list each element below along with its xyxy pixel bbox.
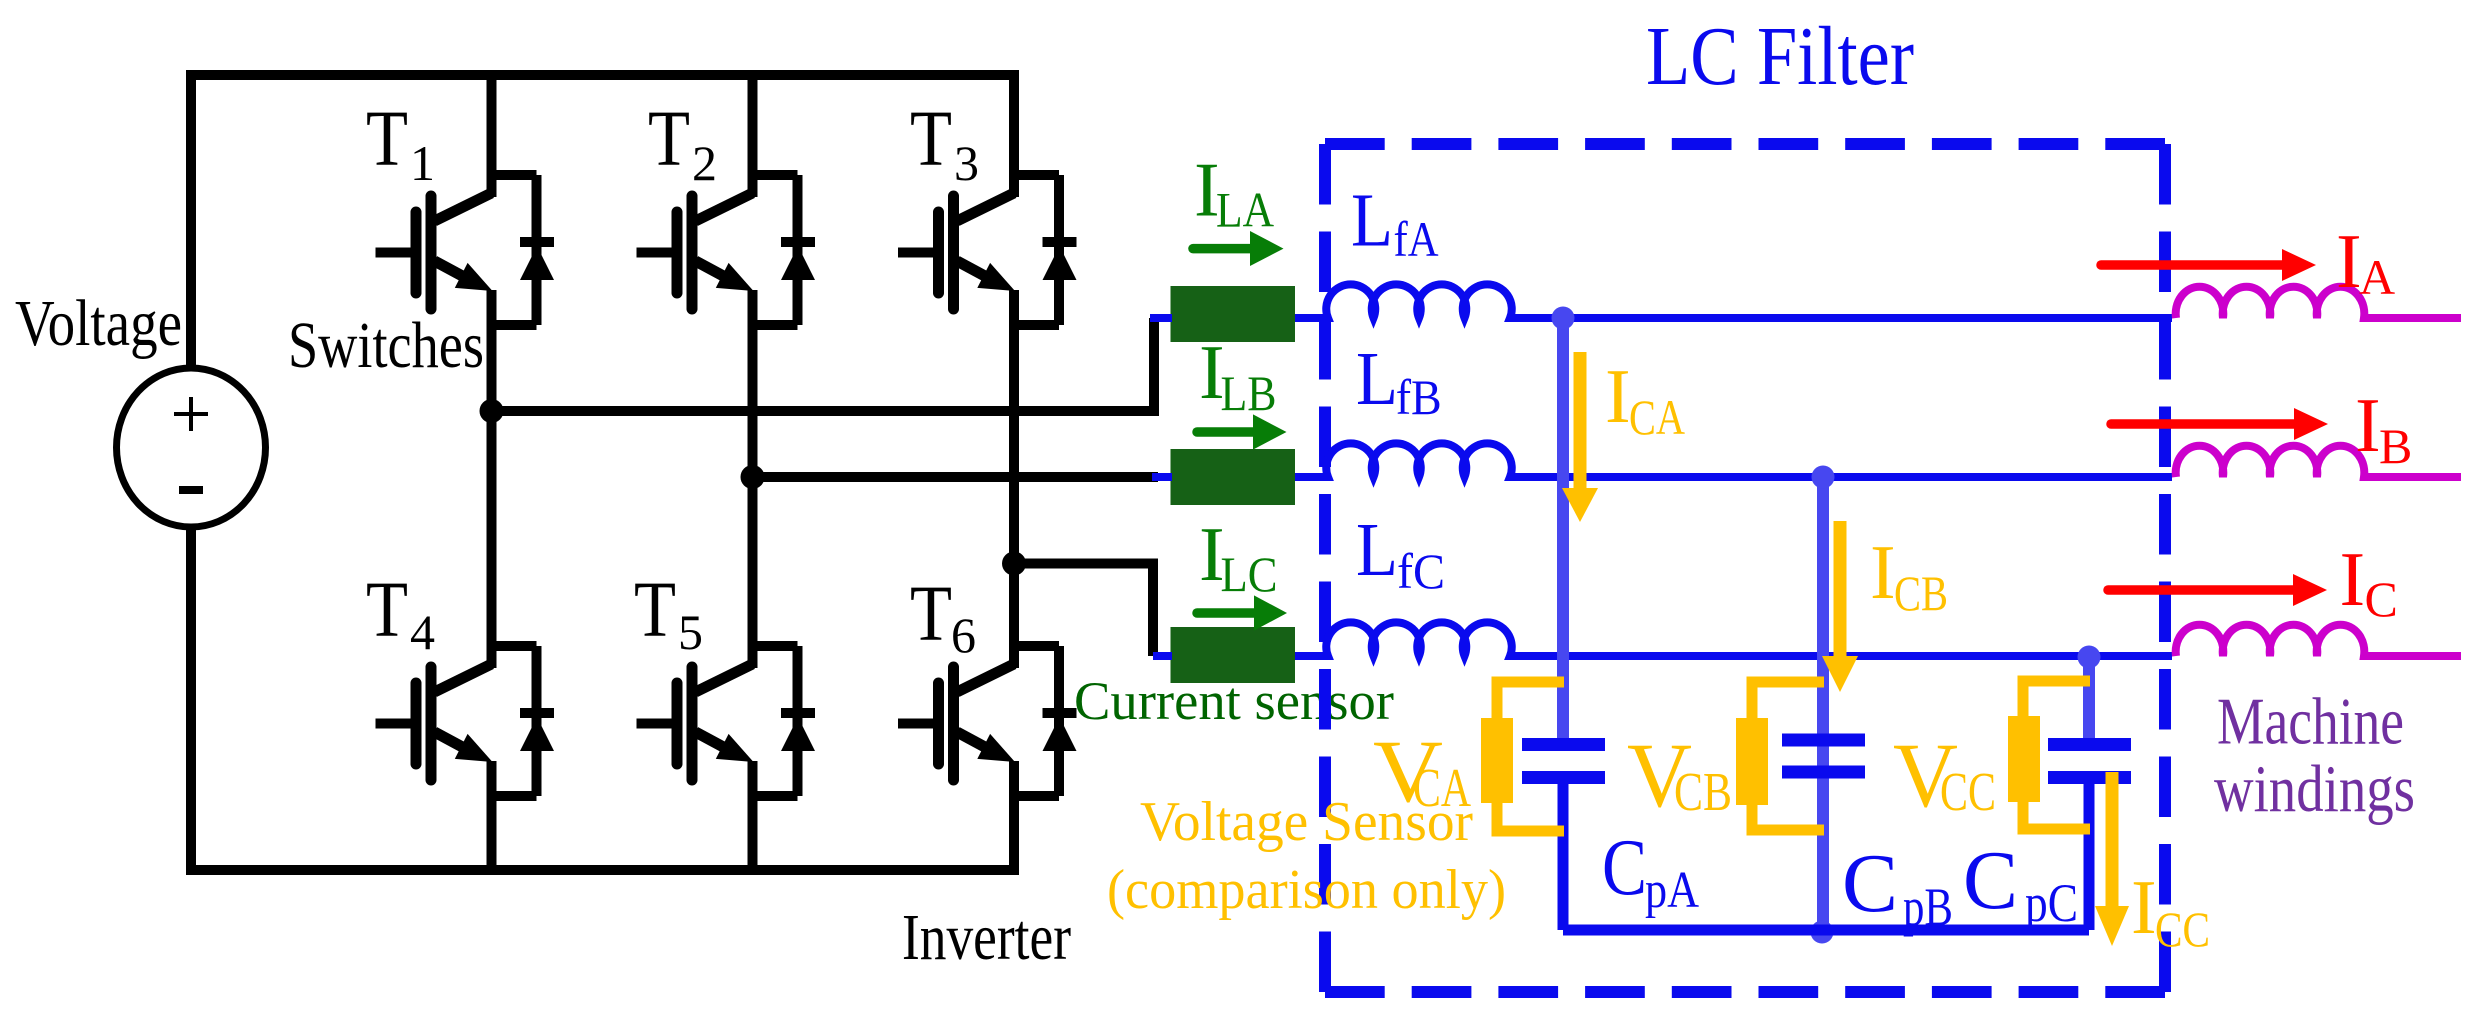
transistor T6 <box>898 641 1077 796</box>
svg-text:T: T <box>910 96 952 183</box>
arrow I_B <box>2111 419 2296 429</box>
wire T6 collector <box>1009 564 1019 647</box>
transistor T2 <box>637 170 816 325</box>
node dot phase A <box>1552 307 1575 330</box>
wire T5 emitter <box>748 761 758 875</box>
svg-text:Inverter: Inverter <box>902 901 1071 974</box>
svg-text:5: 5 <box>678 604 703 660</box>
svg-text:fB: fB <box>1396 369 1442 425</box>
svg-text:C: C <box>1602 824 1647 912</box>
svg-text:Switches: Switches <box>288 309 484 382</box>
voltage sensor C rect <box>2008 716 2040 802</box>
LC filter dashed box <box>1325 144 2165 992</box>
wire sensor C stub left <box>1153 652 1172 660</box>
svg-text:L: L <box>1356 337 1398 421</box>
svg-text:Voltage Sensor: Voltage Sensor <box>1140 791 1473 853</box>
capacitor CpA <box>1522 745 1605 931</box>
bottom rail <box>191 865 1014 875</box>
transistor T3 <box>898 170 1077 325</box>
node dot bus B <box>1811 921 1834 944</box>
wire T2 emitter to node B <box>748 290 758 477</box>
svg-text:I: I <box>2336 218 2362 304</box>
transistor T1 <box>376 170 555 325</box>
inductor LfA <box>1295 284 2172 318</box>
svg-text:LC Filter: LC Filter <box>1646 10 1914 103</box>
node dot phase C <box>2078 646 2101 669</box>
svg-text:CB: CB <box>1674 761 1732 822</box>
svg-text:I: I <box>1870 529 1896 615</box>
svg-text:1: 1 <box>410 135 435 191</box>
svg-text:C: C <box>1842 837 1898 930</box>
transistor T4 <box>376 641 555 796</box>
wire T1 emitter to node A <box>487 290 497 411</box>
svg-text:(comparison only): (comparison only) <box>1107 859 1506 921</box>
wire phase B black <box>753 472 1159 482</box>
node C junction dot <box>1002 552 1026 576</box>
svg-text:CA: CA <box>1629 389 1685 445</box>
arrow I_CB <box>1834 521 1847 658</box>
svg-text:2: 2 <box>692 135 717 191</box>
svg-text:C: C <box>1963 834 2018 927</box>
svg-text:T: T <box>634 567 676 654</box>
svg-text:T: T <box>366 96 408 183</box>
svg-text:6: 6 <box>951 607 976 663</box>
voltage sensor C leads <box>2023 681 2090 829</box>
svg-text:LC: LC <box>1221 546 1278 602</box>
arrow I_LB <box>1197 414 1287 449</box>
current sensor B <box>1171 449 1296 505</box>
wire left vertical bottom <box>186 526 196 875</box>
svg-text:CC: CC <box>2155 901 2210 957</box>
svg-text:Machine: Machine <box>2217 685 2404 759</box>
wire T4 collector <box>487 411 497 646</box>
svg-text:pB: pB <box>1903 877 1953 937</box>
wire sensor A stub left (blue) <box>1150 314 1172 322</box>
arrow I_LC <box>1197 595 1287 630</box>
svg-text:Voltage: Voltage <box>15 287 182 360</box>
inductor LfC <box>1295 622 2172 656</box>
wire T5 collector <box>748 477 758 646</box>
svg-text:T: T <box>648 96 690 183</box>
wire T4 emitter <box>487 761 497 875</box>
arrow I_CC <box>2106 772 2119 908</box>
node A junction dot <box>480 399 504 423</box>
arrow I_C <box>2108 585 2295 595</box>
current sensor A <box>1171 286 1296 342</box>
wire T1 collector <box>487 70 497 175</box>
voltage sensor B rect <box>1736 718 1768 805</box>
wire left vertical top <box>186 70 196 369</box>
svg-text:Current sensor: Current sensor <box>1074 671 1394 731</box>
wire T3 emitter to node C <box>1009 290 1019 564</box>
svg-text:T: T <box>366 567 408 654</box>
svg-text:I: I <box>1605 353 1631 439</box>
svg-text:L: L <box>1356 508 1398 592</box>
svg-text:LB: LB <box>1221 365 1277 421</box>
wire branch A upper (light blue) <box>1557 318 1569 740</box>
voltage source V1 <box>117 368 266 527</box>
svg-text:I: I <box>2131 864 2157 950</box>
svg-text:L: L <box>1351 179 1393 263</box>
capacitor CpC <box>2048 745 2131 931</box>
svg-text:fA: fA <box>1394 211 1439 267</box>
svg-text:CB: CB <box>1894 565 1948 621</box>
svg-text:pC: pC <box>2025 873 2078 933</box>
svg-text:C: C <box>2365 571 2398 627</box>
wire phase C black <box>1014 564 1153 657</box>
arrow I_CA <box>1574 352 1587 490</box>
voltage sensor B leads <box>1752 682 1824 830</box>
wire sensor B stub left <box>1152 473 1172 481</box>
transistor T5 <box>637 641 816 796</box>
svg-text:B: B <box>2379 418 2412 474</box>
svg-text:I: I <box>2340 536 2366 622</box>
wire capacitor bottom bus <box>1563 925 2089 936</box>
node dot phase B <box>1812 466 1835 489</box>
capacitor CpB <box>1782 740 1865 772</box>
svg-text:fC: fC <box>1397 543 1445 599</box>
winding C <box>2176 625 2461 656</box>
voltage sensor A rect <box>1481 718 1513 803</box>
wire T2 collector <box>748 70 758 175</box>
svg-text:LA: LA <box>1216 182 1274 238</box>
top rail <box>191 70 1014 80</box>
svg-text:windings: windings <box>2214 752 2415 826</box>
winding B <box>2176 446 2461 477</box>
wire branch C upper (light blue) <box>2083 657 2095 740</box>
svg-text:A: A <box>2359 249 2395 305</box>
arrow I_LA <box>1193 231 1284 266</box>
svg-text:3: 3 <box>954 135 979 191</box>
wire T6 emitter <box>1009 761 1019 875</box>
wire branch B (light blue) <box>1817 477 1829 930</box>
svg-text:CC: CC <box>1940 761 1996 822</box>
inductor LfB <box>1295 443 2172 477</box>
winding A <box>2176 287 2461 318</box>
voltage sensor A leads <box>1497 682 1564 831</box>
wire T3 collector <box>1009 70 1019 175</box>
arrow I_A <box>2101 260 2284 270</box>
svg-text:pA: pA <box>1645 862 1699 919</box>
wire phase A black <box>492 318 1155 411</box>
node B junction dot <box>741 465 765 489</box>
svg-text:4: 4 <box>410 604 435 660</box>
current sensor C <box>1171 627 1296 683</box>
svg-text:T: T <box>910 571 952 658</box>
svg-text:I: I <box>2355 382 2381 468</box>
